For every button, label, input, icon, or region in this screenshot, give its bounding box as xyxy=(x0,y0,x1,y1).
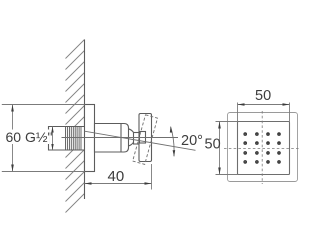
front view: nozzle holes 4x4 xyxy=(244,133,280,163)
nozzle stem xyxy=(134,133,140,145)
wall flange (escutcheon side view) xyxy=(85,105,95,172)
threaded pipe G1/2 xyxy=(49,127,85,151)
front view: outer square xyxy=(228,113,298,182)
svg-text:40: 40 xyxy=(108,168,125,185)
dim left 50: extension lines xyxy=(216,121,238,123)
cone taper xyxy=(128,129,133,133)
dim G1/2 small dimension xyxy=(52,127,54,151)
angled axis line 20deg xyxy=(85,131,196,150)
angle arc xyxy=(171,127,174,157)
front view: dashed center lines xyxy=(261,111,263,184)
svg-text:50: 50 xyxy=(205,137,221,153)
svg-text:20°: 20° xyxy=(181,133,203,149)
dim 60: extension lines xyxy=(2,104,85,106)
arc arrow bottom xyxy=(173,150,176,157)
arc arrow top xyxy=(170,126,173,132)
wall face line xyxy=(84,40,86,200)
dim top 50: extension lines xyxy=(237,103,239,122)
dim 40: dimension line xyxy=(85,183,152,185)
svg-text:50: 50 xyxy=(255,88,271,104)
wall hatching xyxy=(66,40,85,213)
label 60 G1/2" xyxy=(5,130,50,145)
face plate (side view) xyxy=(139,114,152,162)
dim 40: extension line xyxy=(151,164,153,190)
body cylinder xyxy=(95,124,129,153)
dim 60: dimension line xyxy=(12,105,14,172)
svg-text:60 G½": 60 G½" xyxy=(6,129,53,145)
dashed tilted plate xyxy=(133,115,158,165)
front view: face square xyxy=(238,122,290,175)
thread lines xyxy=(66,127,82,150)
dim top 50: dimension line xyxy=(238,104,290,106)
nozzle box inside plate xyxy=(140,132,146,144)
centerline xyxy=(62,137,179,139)
body ring line xyxy=(120,124,122,153)
dim left 50: dimension line xyxy=(219,122,221,175)
